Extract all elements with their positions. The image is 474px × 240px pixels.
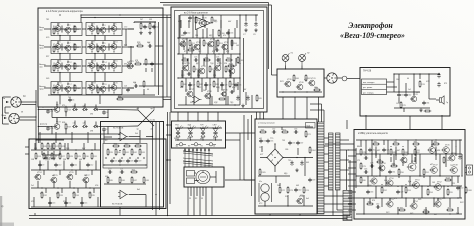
resistor R13 bbox=[140, 22, 146, 30]
wire bbox=[387, 81, 395, 83]
resistor R32 bbox=[41, 191, 47, 199]
resistor R18 bbox=[65, 106, 71, 114]
wire bbox=[421, 186, 423, 198]
resistor R53 bbox=[217, 39, 223, 47]
svg-text:C29: C29 bbox=[224, 85, 227, 87]
wire bbox=[419, 74, 421, 79]
resistor R2 bbox=[53, 27, 58, 35]
svg-text:T8: T8 bbox=[88, 85, 90, 87]
svg-text:000: 000 bbox=[79, 159, 82, 161]
wire bbox=[336, 190, 338, 210]
capacitor C34 bbox=[259, 139, 266, 143]
capacitor C2 bbox=[152, 25, 158, 29]
transistor VT4 bbox=[99, 25, 106, 33]
wire bbox=[360, 140, 362, 147]
wire bbox=[205, 187, 207, 216]
svg-text:3C6: 3C6 bbox=[66, 148, 69, 150]
resistor R104 bbox=[309, 146, 316, 154]
block: control module bbox=[277, 69, 324, 97]
wire bbox=[193, 78, 195, 105]
wire bbox=[199, 40, 201, 50]
wire bbox=[199, 38, 201, 54]
wire bbox=[55, 132, 57, 143]
wire bbox=[281, 127, 283, 130]
svg-text:VT7: VT7 bbox=[67, 43, 70, 45]
resistor R68 bbox=[313, 87, 321, 91]
wire bbox=[445, 153, 447, 167]
svg-text:407: 407 bbox=[229, 75, 232, 77]
wire bbox=[409, 176, 411, 186]
wire bbox=[210, 176, 216, 178]
wire bbox=[301, 65, 303, 69]
wire bbox=[145, 195, 147, 208]
connector XS3 bbox=[327, 73, 337, 83]
wire bbox=[87, 132, 89, 143]
resistor R76 bbox=[419, 80, 425, 88]
wire bbox=[245, 92, 247, 105]
wire bbox=[155, 45, 163, 47]
wire bbox=[215, 171, 217, 183]
resistor R58 bbox=[193, 65, 199, 73]
wire bbox=[356, 175, 460, 177]
wire bbox=[158, 22, 160, 95]
wire bbox=[279, 91, 322, 93]
wire bbox=[397, 186, 399, 187]
capacitor C61 bbox=[388, 170, 395, 174]
wire bbox=[143, 157, 145, 159]
resistor R46 bbox=[119, 176, 125, 184]
wire bbox=[129, 194, 146, 196]
svg-text:R100: R100 bbox=[220, 33, 224, 35]
wire bbox=[324, 145, 329, 147]
svg-text:R32: R32 bbox=[43, 195, 46, 197]
resistor R26 bbox=[51, 152, 57, 160]
wire bbox=[435, 150, 437, 160]
wire bbox=[310, 109, 324, 111]
wire bbox=[459, 186, 461, 198]
capacitor C19 bbox=[134, 159, 141, 163]
svg-text:R85: R85 bbox=[392, 152, 395, 154]
resistor R47 bbox=[131, 176, 137, 184]
wire bbox=[166, 159, 171, 161]
svg-text:C34: C34 bbox=[263, 141, 266, 143]
wire bbox=[403, 108, 405, 112]
resistor R101 bbox=[187, 47, 195, 51]
svg-text:R108: R108 bbox=[467, 190, 471, 192]
svg-text:C21: C21 bbox=[120, 169, 123, 171]
transistor VT39 bbox=[284, 79, 292, 87]
svg-text:196: 196 bbox=[195, 35, 198, 37]
sub-block row2 left bbox=[51, 41, 82, 54]
resistor R54 bbox=[231, 39, 237, 47]
wire bbox=[234, 28, 236, 38]
capacitor C24 bbox=[254, 21, 257, 26]
svg-text:8T3: 8T3 bbox=[444, 83, 447, 85]
resistor R63 bbox=[213, 80, 219, 88]
wire bbox=[385, 176, 387, 186]
wire bbox=[439, 154, 441, 176]
resistor R12 bbox=[97, 86, 103, 94]
wire bbox=[67, 70, 69, 72]
svg-text:C46: C46 bbox=[364, 169, 367, 171]
svg-text:R65: R65 bbox=[258, 98, 261, 100]
svg-text:C20: C20 bbox=[108, 169, 111, 171]
svg-text:C40: C40 bbox=[298, 190, 301, 192]
wire bbox=[324, 153, 329, 155]
wire bbox=[348, 173, 356, 175]
resistor R3 bbox=[97, 27, 102, 35]
svg-text:149: 149 bbox=[432, 182, 435, 184]
connector XS2 bbox=[9, 113, 19, 123]
wire bbox=[356, 213, 462, 215]
wire bbox=[152, 122, 154, 210]
svg-text:T82: T82 bbox=[46, 19, 49, 21]
resistor R105 bbox=[259, 168, 266, 176]
svg-text:R33: R33 bbox=[59, 195, 62, 197]
wire bbox=[259, 112, 261, 119]
wire bbox=[41, 151, 43, 155]
wire bbox=[36, 139, 64, 141]
resistor R48 bbox=[143, 176, 149, 184]
transistor VT3 bbox=[88, 24, 95, 32]
wire bbox=[29, 215, 350, 217]
resistor R86 bbox=[402, 148, 408, 156]
wire bbox=[2, 97, 4, 124]
wire bbox=[390, 146, 392, 147]
scan mark bbox=[0, 196, 14, 226]
svg-text:RV3: RV3 bbox=[280, 81, 283, 83]
diode VD3 bbox=[93, 108, 99, 111]
wire bbox=[129, 136, 140, 138]
electron tube VL1 bbox=[196, 171, 210, 184]
svg-text:R28: R28 bbox=[69, 156, 72, 158]
wire bbox=[260, 157, 267, 159]
wire bbox=[47, 161, 49, 171]
capacitor C38 bbox=[290, 160, 293, 165]
wire bbox=[146, 136, 153, 138]
wire bbox=[91, 24, 93, 26]
svg-text:C13: C13 bbox=[52, 203, 55, 205]
transistor VT25 bbox=[50, 175, 58, 183]
wire bbox=[82, 46, 86, 48]
svg-text:R19: R19 bbox=[67, 126, 70, 128]
wire bbox=[108, 125, 138, 128]
LED indicator VD7 bbox=[176, 126, 183, 141]
wire bbox=[155, 210, 157, 216]
svg-text:C47: C47 bbox=[386, 150, 389, 152]
svg-text:23: 23 bbox=[189, 198, 191, 200]
transistor VT40 bbox=[296, 82, 304, 90]
block: power supply bbox=[255, 119, 317, 214]
resistor R9 bbox=[97, 64, 102, 72]
svg-text:Д31: Д31 bbox=[124, 45, 127, 47]
svg-text:298: 298 bbox=[90, 131, 93, 133]
resistor R60 bbox=[225, 65, 231, 73]
transistor VT1 bbox=[54, 24, 61, 32]
svg-text:Электрофон: Электрофон bbox=[348, 21, 393, 30]
svg-text:0Д0: 0Д0 bbox=[284, 173, 287, 175]
capacitor C67 bbox=[230, 90, 234, 94]
wire bbox=[175, 139, 222, 141]
ground bbox=[244, 28, 247, 32]
wire bbox=[178, 104, 240, 106]
wire bbox=[323, 110, 325, 122]
transistor VT38 bbox=[204, 91, 212, 99]
wire bbox=[39, 161, 41, 171]
wire bbox=[188, 148, 190, 150]
resistor R30 bbox=[83, 152, 89, 160]
wire bbox=[82, 87, 86, 89]
svg-text:C58: C58 bbox=[50, 128, 53, 130]
svg-text:R31: R31 bbox=[93, 156, 96, 158]
wire bbox=[94, 54, 96, 60]
transistor VT24 bbox=[34, 172, 42, 180]
wire bbox=[42, 154, 60, 156]
svg-text:R43: R43 bbox=[141, 152, 144, 154]
svg-text:в 1-й блок усилителя-корректор: в 1-й блок усилителя-корректора bbox=[46, 10, 83, 13]
wire bbox=[99, 95, 101, 104]
wire bbox=[67, 51, 69, 53]
wire bbox=[102, 51, 104, 53]
wire bbox=[5, 112, 9, 114]
transistor VT47 bbox=[430, 165, 438, 174]
wire bbox=[369, 198, 371, 204]
wire bbox=[283, 157, 313, 159]
wire bbox=[274, 144, 276, 149]
wire bbox=[51, 110, 53, 118]
block: GNCh-28 radio unit bbox=[360, 68, 450, 117]
capacitor C56 bbox=[234, 83, 241, 87]
svg-text:9V6: 9V6 bbox=[46, 78, 49, 80]
resistor R43 bbox=[139, 148, 145, 156]
wire bbox=[215, 40, 217, 50]
wire bbox=[180, 14, 258, 16]
capacitor C49 bbox=[396, 190, 403, 194]
wire bbox=[163, 4, 272, 6]
transistor VT51 bbox=[412, 180, 420, 189]
wire bbox=[414, 157, 416, 162]
LED indicator VD9 bbox=[201, 126, 208, 141]
wire bbox=[175, 127, 222, 129]
wire bbox=[33, 197, 35, 207]
svg-text:R79: R79 bbox=[362, 166, 365, 168]
svg-text:C25: C25 bbox=[194, 57, 197, 59]
wire bbox=[348, 179, 356, 181]
sub-block row4 left bbox=[51, 82, 82, 95]
capacitor C11 bbox=[70, 163, 77, 167]
diode VD2 bbox=[82, 108, 88, 111]
wire bbox=[67, 42, 69, 44]
capacitor C58 bbox=[46, 126, 53, 130]
svg-text:414: 414 bbox=[133, 82, 136, 84]
ground bbox=[139, 31, 142, 35]
resistor R78 bbox=[360, 148, 366, 156]
svg-text:R105: R105 bbox=[261, 172, 265, 174]
resistor R5 bbox=[53, 45, 58, 53]
svg-text:R46: R46 bbox=[121, 180, 124, 182]
wire bbox=[251, 95, 253, 108]
wire bbox=[394, 91, 420, 93]
resistor R21 bbox=[47, 142, 53, 150]
wire bbox=[67, 33, 69, 35]
wire bbox=[163, 96, 171, 98]
svg-text:C36: C36 bbox=[292, 143, 295, 145]
svg-text:873: 873 bbox=[40, 193, 43, 195]
svg-text:V35: V35 bbox=[31, 201, 34, 203]
svg-text:R30: R30 bbox=[85, 156, 88, 158]
svg-text:410: 410 bbox=[232, 87, 235, 89]
wire bbox=[411, 154, 413, 163]
svg-text:Cк1: Cк1 bbox=[408, 89, 411, 91]
svg-text:0T3: 0T3 bbox=[394, 198, 397, 200]
wire bbox=[166, 124, 172, 126]
wire bbox=[61, 63, 63, 70]
wire bbox=[348, 209, 356, 211]
resistor R108 bbox=[465, 186, 472, 194]
wire bbox=[59, 170, 61, 175]
op-amp DA2 bbox=[118, 190, 129, 198]
wire bbox=[61, 26, 63, 33]
wire bbox=[449, 198, 451, 207]
wire bbox=[221, 82, 223, 90]
svg-text:C54: C54 bbox=[215, 47, 218, 49]
transistor VT13 bbox=[88, 61, 96, 69]
wire bbox=[367, 176, 369, 186]
diode VD1 bbox=[72, 108, 78, 111]
wire bbox=[393, 154, 395, 166]
svg-text:R84: R84 bbox=[434, 141, 437, 143]
wire bbox=[225, 78, 227, 105]
wire bbox=[154, 22, 156, 86]
svg-text:R49: R49 bbox=[197, 20, 200, 22]
wire bbox=[178, 37, 240, 39]
wire bbox=[243, 115, 245, 180]
wire bbox=[84, 104, 86, 109]
svg-text:VT8: VT8 bbox=[91, 42, 94, 44]
wire bbox=[59, 54, 61, 60]
wire bbox=[167, 112, 169, 216]
wire bbox=[423, 176, 425, 178]
wire bbox=[435, 147, 437, 157]
transistor VT58 bbox=[378, 163, 386, 171]
capacitor C57 bbox=[46, 109, 53, 113]
transistor VT16 bbox=[54, 83, 62, 91]
svg-text:VT49: VT49 bbox=[373, 176, 378, 178]
capacitor C63 bbox=[366, 190, 373, 194]
svg-text:R96: R96 bbox=[368, 201, 371, 203]
wire bbox=[356, 197, 462, 199]
capacitor C28 bbox=[204, 83, 211, 87]
svg-text:591: 591 bbox=[417, 150, 420, 152]
wire bbox=[145, 68, 147, 72]
wire bbox=[332, 190, 334, 216]
svg-text:R76: R76 bbox=[421, 84, 424, 86]
wire bbox=[97, 197, 99, 207]
wire bbox=[199, 187, 201, 216]
wire bbox=[348, 185, 356, 187]
svg-text:2к1: 2к1 bbox=[31, 185, 34, 187]
wire bbox=[214, 54, 216, 78]
svg-text:+12,6в: +12,6в bbox=[149, 120, 155, 122]
wire bbox=[425, 207, 427, 214]
wire bbox=[65, 197, 67, 207]
resistor R107 bbox=[444, 177, 452, 181]
wire bbox=[325, 143, 354, 145]
capacitor C41 bbox=[397, 93, 404, 97]
resistor R91 bbox=[423, 168, 429, 176]
wire bbox=[207, 112, 209, 121]
wire bbox=[48, 94, 155, 96]
wire bbox=[61, 188, 63, 193]
wire bbox=[44, 65, 51, 67]
wire bbox=[56, 119, 58, 124]
resistor R62 bbox=[197, 80, 203, 88]
wire bbox=[201, 78, 203, 92]
wire bbox=[190, 187, 192, 196]
resistor R25 bbox=[43, 152, 49, 160]
wire bbox=[108, 109, 138, 112]
wire bbox=[113, 42, 115, 44]
resistor R51 bbox=[189, 39, 195, 47]
resistor R102 bbox=[227, 63, 235, 67]
wire bbox=[220, 15, 222, 38]
wire bbox=[134, 21, 156, 23]
transistor VT35 bbox=[214, 63, 222, 71]
transistor VT20 bbox=[110, 83, 118, 91]
resistor R15 bbox=[136, 43, 144, 47]
svg-text:225: 225 bbox=[452, 183, 455, 185]
wire bbox=[155, 122, 157, 210]
wire bbox=[429, 98, 436, 100]
svg-text:R86: R86 bbox=[404, 152, 407, 154]
wire bbox=[139, 130, 141, 143]
wire bbox=[393, 74, 395, 92]
wire bbox=[197, 70, 199, 78]
capacitor C4 bbox=[134, 83, 138, 88]
svg-text:R99: R99 bbox=[448, 207, 451, 209]
resistor R99 bbox=[446, 207, 454, 211]
wire bbox=[400, 106, 402, 109]
wire bbox=[63, 161, 65, 171]
wire bbox=[69, 36, 71, 41]
wire bbox=[198, 54, 200, 78]
svg-text:вкл. заводск: вкл. заводск bbox=[363, 82, 375, 84]
wire bbox=[52, 28, 81, 30]
ground bbox=[419, 108, 422, 112]
wire bbox=[61, 85, 63, 92]
svg-text:609: 609 bbox=[306, 162, 309, 164]
bridge rectifier VD5-VD8 bbox=[267, 149, 283, 166]
wire bbox=[264, 201, 266, 206]
wire bbox=[102, 70, 104, 72]
resistor R44 bbox=[130, 169, 138, 173]
wire bbox=[347, 78, 360, 80]
capacitor C65 bbox=[150, 62, 154, 66]
wire bbox=[95, 105, 97, 110]
svg-text:R3: R3 bbox=[99, 31, 101, 33]
svg-text:CT9: CT9 bbox=[118, 95, 121, 97]
wire bbox=[205, 82, 207, 90]
wire bbox=[371, 140, 373, 162]
wire bbox=[53, 151, 55, 155]
resistor R83 bbox=[412, 141, 420, 145]
wire bbox=[455, 147, 457, 157]
LED indicator VD8 bbox=[188, 126, 195, 141]
capacitor C27 bbox=[188, 83, 195, 87]
block: preamp channel box A bbox=[38, 8, 163, 107]
svg-text:R6: R6 bbox=[99, 49, 101, 51]
wire bbox=[105, 157, 107, 159]
